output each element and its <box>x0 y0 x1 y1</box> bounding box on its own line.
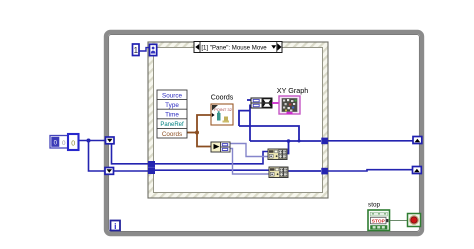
svg-text:Type: Type <box>165 102 179 109</box>
build-array node 1 <box>268 149 287 160</box>
build-array node 2 <box>269 167 288 178</box>
left tunnels on event structure border <box>148 161 155 174</box>
right shift register 1 <box>413 137 422 144</box>
event data node <box>157 90 187 138</box>
wire: brown coords wires <box>187 115 212 147</box>
wire: unbundle y output to build-array node 2 <box>230 149 269 175</box>
wire: left shift register 1 into event structure tunnel <box>112 144 149 164</box>
right tunnels on event structure border <box>321 138 328 175</box>
svg-text:XY Graph: XY Graph <box>277 86 308 95</box>
svg-text:Source: Source <box>162 92 182 99</box>
svg-text:Coords: Coords <box>211 95 234 102</box>
left shift register 1 <box>106 137 115 144</box>
svg-text:Coords: Coords <box>162 131 182 138</box>
junction on constant wire <box>87 139 91 143</box>
svg-text:1: 1 <box>134 46 139 55</box>
svg-text:i: i <box>114 221 116 231</box>
stop button terminal <box>368 201 390 230</box>
numeric constant 1 (top left) <box>133 44 150 56</box>
junction dots on main bus <box>287 139 291 143</box>
bundle node <box>251 98 272 108</box>
svg-text:POINT 32: POINT 32 <box>214 107 232 112</box>
wire: unbundle x output to build-array node 1 <box>230 144 268 157</box>
right shift register 2 <box>413 167 422 174</box>
wire: left array constant to left shift registers <box>79 141 106 172</box>
wire: left shift register 2 into tunnel <box>114 170 149 172</box>
event structure border (hatched) <box>148 42 328 198</box>
svg-text:PaneRef: PaneRef <box>160 122 184 128</box>
wire: build-array 1 output up to main bus and bundle (zigzag) <box>239 100 321 154</box>
svg-text:stop: stop <box>368 201 380 208</box>
iteration terminal i <box>111 221 121 231</box>
wire: build-array 2 output to right tunnel <box>288 170 321 172</box>
loop condition terminal <box>408 214 421 227</box>
wire: bundle to xy graph (magenta) <box>272 102 279 104</box>
left shift register 2 <box>105 168 114 175</box>
svg-text:0: 0 <box>62 140 66 147</box>
while loop border <box>106 32 422 234</box>
svg-text:STOP: STOP <box>372 218 386 224</box>
wire: stop to loop condition <box>390 219 408 221</box>
wire: tunnel to build-array node 1 (x array) <box>155 152 268 164</box>
wire: tunnel to build-array node 2 (y array) <box>155 169 269 171</box>
array constant (left of loop) <box>50 134 79 150</box>
svg-text:Time: Time <box>165 112 179 119</box>
event selector label <box>194 42 282 53</box>
wire: right tunnels to right shift registers <box>328 141 413 171</box>
unbundle node <box>211 142 230 152</box>
svg-text:[1] "Pane": Mouse Move: [1] "Pane": Mouse Move <box>201 45 267 52</box>
svg-text:0: 0 <box>71 141 75 148</box>
xy graph terminal <box>277 86 308 114</box>
dynamic event terminal <box>150 44 157 55</box>
brown junction <box>195 131 199 135</box>
coords cluster icon (POINT 32) <box>211 95 234 125</box>
